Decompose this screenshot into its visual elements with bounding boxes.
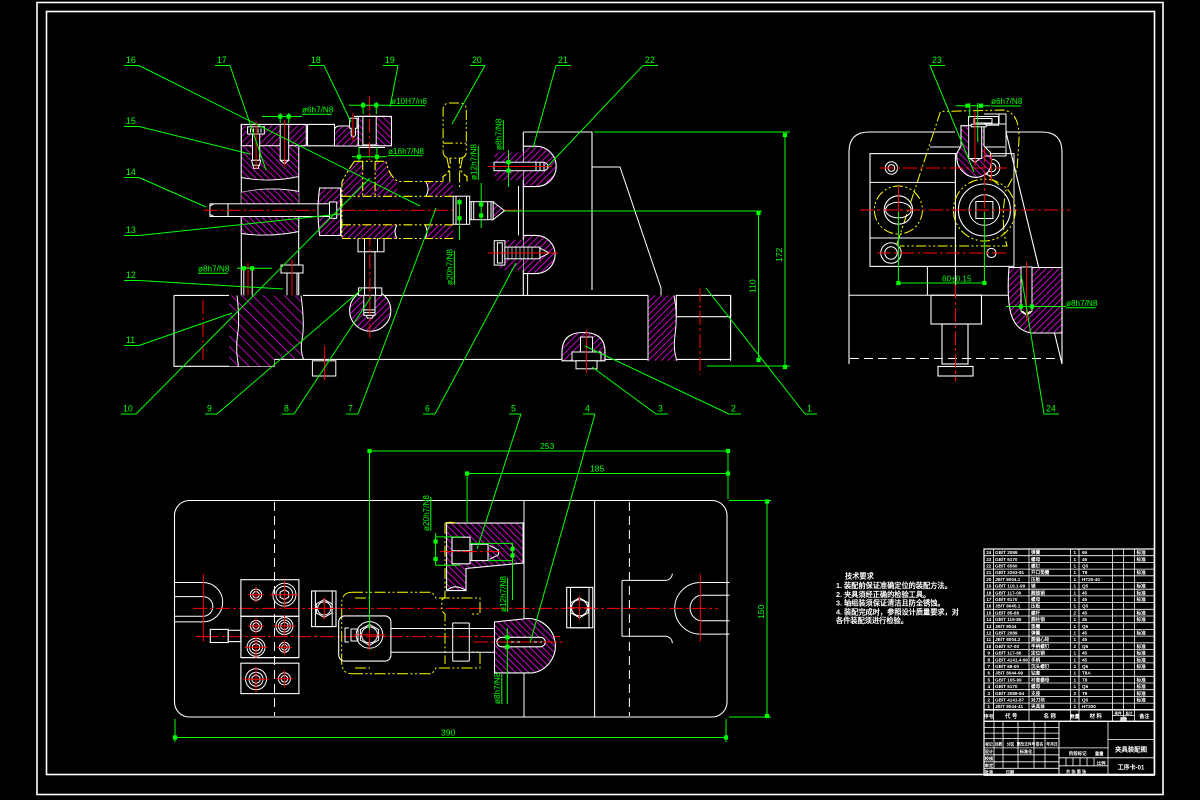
svg-text:3: 3 bbox=[658, 404, 663, 414]
dowel pin bbox=[280, 124, 289, 160]
svg-text:圆偏心轮: 圆偏心轮 bbox=[1031, 636, 1050, 643]
upper boss (hatched) bbox=[523, 146, 556, 186]
clamp screw lower: head bbox=[494, 241, 505, 265]
svg-text:GB/T 117-00: GB/T 117-00 bbox=[995, 590, 1022, 595]
svg-text:1: 1 bbox=[1074, 637, 1077, 642]
svg-text:T8: T8 bbox=[1082, 570, 1088, 575]
svg-text:压板: 压板 bbox=[1031, 603, 1041, 610]
lower boss (hatched) bbox=[523, 235, 555, 273]
plan: guide block with hex bolt bbox=[312, 591, 336, 627]
plan: dashed centerline vertical left bbox=[274, 502, 276, 716]
svg-text:ø12h7/N8: ø12h7/N8 bbox=[470, 144, 479, 180]
svg-text:序号: 序号 bbox=[984, 713, 994, 720]
svg-text:ø8h7/N8: ø8h7/N8 bbox=[1066, 299, 1098, 308]
svg-text:处数: 处数 bbox=[994, 742, 1003, 747]
svg-text:253: 253 bbox=[540, 441, 555, 451]
svg-text:1: 1 bbox=[988, 704, 991, 709]
svg-text:GB/T 2089: GB/T 2089 bbox=[995, 631, 1018, 636]
small hole top-right bbox=[983, 159, 1000, 176]
svg-text:分区: 分区 bbox=[1007, 742, 1015, 747]
svg-text:审定: 审定 bbox=[985, 762, 994, 769]
svg-text:ø20h7/N8: ø20h7/N8 bbox=[422, 495, 431, 531]
dim 172 bbox=[784, 134, 786, 368]
svg-text:45: 45 bbox=[1082, 637, 1088, 642]
svg-text:21: 21 bbox=[986, 570, 992, 575]
dim o8h7/N8 plan vertical bbox=[493, 672, 502, 704]
svg-text:1: 1 bbox=[1074, 704, 1077, 709]
svg-text:5: 5 bbox=[988, 677, 991, 682]
svg-text:支座: 支座 bbox=[1031, 690, 1041, 697]
svg-text:GB/T 4141-87: GB/T 4141-87 bbox=[995, 698, 1025, 703]
svg-text:19: 19 bbox=[385, 55, 395, 65]
pedestal lower block bbox=[942, 324, 968, 364]
svg-text:ø10H7/n6: ø10H7/n6 bbox=[391, 97, 427, 106]
svg-text:Q5: Q5 bbox=[1082, 684, 1089, 689]
svg-text:标准: 标准 bbox=[1136, 643, 1147, 650]
svg-text:10: 10 bbox=[123, 404, 133, 414]
svg-text:ø6h7/N8: ø6h7/N8 bbox=[302, 106, 334, 115]
svg-text:1: 1 bbox=[1074, 550, 1077, 555]
dim o20h7/N8 vertical bbox=[446, 249, 455, 285]
cone tip (hatched) bbox=[493, 202, 504, 220]
body left flange (hatched) bbox=[318, 188, 341, 236]
svg-text:手柄: 手柄 bbox=[1031, 656, 1041, 663]
svg-text:2: 2 bbox=[988, 698, 991, 703]
plan: clamp screw bolt head bbox=[452, 537, 470, 564]
svg-text:批准: 批准 bbox=[985, 768, 994, 775]
bracket base hatched section bbox=[648, 295, 677, 360]
plan: left U-slot bbox=[175, 583, 223, 622]
phantom circle left bbox=[874, 186, 922, 234]
svg-text:JB/T 8045.1: JB/T 8045.1 bbox=[995, 604, 1021, 609]
svg-text:1: 1 bbox=[1074, 684, 1077, 689]
svg-text:16: 16 bbox=[126, 55, 136, 65]
svg-text:1: 1 bbox=[1074, 564, 1077, 569]
svg-text:20: 20 bbox=[986, 577, 992, 582]
svg-text:Q5: Q5 bbox=[1082, 698, 1089, 703]
column hatch band A bbox=[241, 146, 298, 180]
plan: left locating stub bbox=[210, 629, 228, 642]
svg-text:2: 2 bbox=[1074, 644, 1077, 649]
svg-text:45: 45 bbox=[1082, 557, 1088, 562]
pedestal foot bbox=[938, 367, 973, 377]
drill bushing block (hatched) bbox=[358, 116, 391, 145]
locating pin in right section bbox=[350, 118, 357, 137]
svg-text:重量: 重量 bbox=[1120, 716, 1128, 721]
svg-text:GB/T 117-86: GB/T 117-86 bbox=[995, 651, 1022, 656]
dim 150 bbox=[766, 501, 768, 718]
plan: right clamp block with hex bolt bbox=[567, 587, 593, 627]
svg-text:标准: 标准 bbox=[1136, 630, 1147, 637]
svg-text:T8A: T8A bbox=[1082, 671, 1091, 676]
body top boss hatch bbox=[342, 161, 363, 196]
svg-text:7: 7 bbox=[348, 404, 353, 414]
svg-text:标准: 标准 bbox=[1136, 583, 1147, 590]
svg-text:GB/T 68-00: GB/T 68-00 bbox=[995, 664, 1019, 669]
svg-text:HT20-40: HT20-40 bbox=[1082, 577, 1100, 582]
screw centerline bbox=[255, 121, 257, 169]
body hatch band upper bbox=[342, 182, 394, 196]
dim o12h7/N8 plan vertical bbox=[499, 576, 508, 612]
bolt centerline bbox=[369, 232, 371, 338]
svg-text:螺母: 螺母 bbox=[1031, 683, 1041, 690]
svg-text:工序卡-01: 工序卡-01 bbox=[1118, 764, 1145, 772]
svg-text:GB/T 85-88: GB/T 85-88 bbox=[995, 610, 1019, 615]
svg-text:GB/T 6170: GB/T 6170 bbox=[995, 557, 1018, 562]
svg-text:GB/T 6170: GB/T 6170 bbox=[995, 684, 1018, 689]
hole bottom-left bbox=[881, 243, 901, 263]
svg-text:标准: 标准 bbox=[1136, 676, 1147, 683]
svg-text:1: 1 bbox=[1074, 651, 1077, 656]
svg-text:110: 110 bbox=[748, 279, 758, 293]
svg-text:ø8h7/N8: ø8h7/N8 bbox=[198, 265, 230, 274]
plan: arm to right bbox=[391, 628, 494, 630]
clamp stud upper bbox=[494, 162, 544, 171]
small hole bottom-right bbox=[987, 248, 996, 257]
svg-text:GB/T 2263-91: GB/T 2263-91 bbox=[995, 570, 1025, 575]
svg-text:开口垫圈: 开口垫圈 bbox=[1031, 569, 1050, 576]
svg-text:Q5: Q5 bbox=[1082, 604, 1089, 609]
svg-text:GB/T 105-99: GB/T 105-99 bbox=[995, 677, 1022, 682]
svg-text:ø6h7/N8: ø6h7/N8 bbox=[991, 97, 1023, 106]
hex nut on base bbox=[359, 288, 382, 296]
svg-text:GB/T 6560: GB/T 6560 bbox=[995, 564, 1018, 569]
svg-text:标准: 标准 bbox=[1136, 549, 1147, 556]
svg-text:45: 45 bbox=[1082, 631, 1088, 636]
svg-text:弹簧: 弹簧 bbox=[1031, 549, 1041, 556]
svg-text:24: 24 bbox=[1046, 404, 1056, 414]
column hatch band B bbox=[241, 189, 298, 203]
plan: swing bolt circles bbox=[356, 622, 383, 649]
svg-text:1: 1 bbox=[1074, 698, 1077, 703]
svg-text:更改文件号: 更改文件号 bbox=[1017, 742, 1036, 747]
svg-text:总计: 总计 bbox=[1125, 711, 1133, 716]
plan: dashed line right bbox=[628, 502, 630, 716]
svg-text:JB/T 8044: JB/T 8044 bbox=[995, 624, 1017, 629]
plan: section line verticals bbox=[523, 501, 525, 717]
svg-text:ø8h7/N8: ø8h7/N8 bbox=[495, 118, 504, 150]
plan: locating pad (hatched) with slot bbox=[495, 619, 556, 673]
svg-text:14: 14 bbox=[126, 167, 136, 177]
svg-text:各件装配须进行检验。: 各件装配须进行检验。 bbox=[835, 616, 908, 625]
side vertical centerline left circle bbox=[897, 186, 899, 234]
bracket base step block bbox=[676, 295, 730, 316]
svg-text:16: 16 bbox=[986, 604, 992, 609]
svg-text:2. 夹具须经正确的检验工具。: 2. 夹具须经正确的检验工具。 bbox=[836, 590, 930, 599]
svg-text:GB/T 119.1-99: GB/T 119.1-99 bbox=[995, 584, 1026, 589]
svg-text:45: 45 bbox=[1082, 651, 1088, 656]
svg-text:Q5: Q5 bbox=[1082, 664, 1089, 669]
foot bolt bbox=[581, 337, 593, 357]
side centerline row 253 bbox=[877, 252, 1007, 254]
plan: pad slot bbox=[497, 637, 545, 647]
svg-text:45: 45 bbox=[1082, 617, 1088, 622]
svg-text:比例: 比例 bbox=[1097, 759, 1105, 766]
svg-text:圆锥销: 圆锥销 bbox=[1031, 589, 1045, 596]
svg-text:65: 65 bbox=[1082, 550, 1088, 555]
svg-text:185: 185 bbox=[590, 464, 605, 474]
svg-text:压板: 压板 bbox=[1031, 576, 1041, 583]
base plate hatched section bbox=[229, 295, 304, 366]
svg-text:设计: 设计 bbox=[985, 748, 994, 755]
svg-text:标准: 标准 bbox=[1136, 589, 1147, 596]
locating pin lower (ø8) bbox=[244, 268, 252, 318]
svg-text:17: 17 bbox=[986, 597, 992, 602]
svg-text:手柄螺钉: 手柄螺钉 bbox=[1031, 643, 1050, 650]
dim 110 bbox=[758, 212, 760, 361]
plan: left slot centerline bbox=[202, 574, 204, 642]
dim 60+-0.15 bbox=[897, 212, 899, 285]
svg-text:1: 1 bbox=[1074, 631, 1077, 636]
vertical bolt hex head bbox=[358, 238, 384, 252]
column hatch band C bbox=[241, 217, 298, 236]
svg-text:阶段标记: 阶段标记 bbox=[1069, 750, 1087, 757]
dim 390 bbox=[175, 737, 726, 739]
svg-text:名 称: 名 称 bbox=[1044, 712, 1057, 720]
rod passing through flange bbox=[318, 204, 331, 217]
svg-text:标准: 标准 bbox=[1136, 683, 1147, 690]
side vertical centerline right bbox=[983, 148, 985, 281]
svg-text:13: 13 bbox=[126, 225, 136, 235]
svg-text:备注: 备注 bbox=[1138, 713, 1149, 720]
side view ledge line bbox=[849, 294, 1062, 296]
svg-text:代 号: 代 号 bbox=[1004, 712, 1018, 720]
svg-text:ø12h7/N8: ø12h7/N8 bbox=[499, 576, 508, 612]
svg-text:标准: 标准 bbox=[1136, 609, 1147, 616]
svg-text:年月日: 年月日 bbox=[1046, 742, 1058, 747]
svg-text:24: 24 bbox=[986, 550, 992, 555]
svg-text:Q5: Q5 bbox=[1082, 624, 1089, 629]
svg-text:150: 150 bbox=[756, 604, 766, 619]
bushing centerline bbox=[369, 96, 371, 160]
svg-text:1: 1 bbox=[807, 404, 812, 414]
BOM header row bbox=[984, 710, 1154, 722]
plan: left clamp block 3 bbox=[241, 663, 299, 693]
svg-text:1: 1 bbox=[1074, 617, 1077, 622]
svg-text:23: 23 bbox=[986, 557, 992, 562]
svg-text:3. 轴组装须保证清洁且防全锈蚀。: 3. 轴组装须保证清洁且防全锈蚀。 bbox=[836, 599, 945, 608]
svg-text:螺母: 螺母 bbox=[1031, 596, 1041, 603]
side phantom workpiece outline bbox=[897, 110, 1019, 246]
svg-text:1: 1 bbox=[1074, 671, 1077, 676]
svg-text:螺钉: 螺钉 bbox=[1031, 563, 1041, 570]
side view dashed base line bbox=[850, 358, 1061, 360]
svg-text:螺母: 螺母 bbox=[1031, 556, 1041, 563]
side centerline row 168 bbox=[880, 167, 1007, 169]
plan: clamp screw shank bbox=[470, 544, 488, 560]
svg-text:ø8h7/N8: ø8h7/N8 bbox=[493, 672, 502, 704]
svg-text:1. 装配前保证准确定位的装配方法。: 1. 装配前保证准确定位的装配方法。 bbox=[836, 581, 952, 590]
svg-text:390: 390 bbox=[441, 728, 456, 738]
small hole top-left bbox=[885, 162, 897, 174]
bracket left edge segments bbox=[522, 132, 524, 295]
side inner right block bbox=[955, 154, 1014, 267]
slotted screw head bbox=[248, 127, 265, 134]
svg-text:ø16h7/N8: ø16h7/N8 bbox=[388, 147, 424, 156]
svg-text:45: 45 bbox=[1082, 657, 1088, 662]
lug slot bbox=[1021, 267, 1032, 314]
plan: main horizontal centerline bbox=[193, 607, 620, 609]
svg-text:沉头螺钉: 沉头螺钉 bbox=[1031, 663, 1050, 670]
svg-text:Q5: Q5 bbox=[1082, 584, 1089, 589]
svg-text:标准: 标准 bbox=[1136, 556, 1147, 563]
svg-text:11: 11 bbox=[986, 637, 991, 642]
svg-text:定位销: 定位销 bbox=[1031, 650, 1045, 657]
svg-text:标准: 标准 bbox=[1136, 650, 1147, 657]
svg-text:172: 172 bbox=[774, 247, 784, 262]
svg-text:ø20h7/N8: ø20h7/N8 bbox=[446, 249, 455, 285]
base left centerline bbox=[202, 300, 204, 362]
side main horizontal centerline bbox=[860, 209, 1070, 211]
plan: clamp screw block (hatched) bbox=[447, 523, 523, 591]
svg-text:1: 1 bbox=[1074, 597, 1077, 602]
side lug (hatched) bbox=[1008, 268, 1062, 334]
phantom circle right bbox=[953, 179, 1015, 241]
push rod bbox=[210, 204, 333, 217]
washer screw in column bbox=[281, 265, 303, 273]
svg-text:10: 10 bbox=[986, 644, 992, 649]
plan view: base plate outline bbox=[175, 501, 728, 718]
svg-text:圆柱销: 圆柱销 bbox=[1031, 616, 1045, 623]
svg-text:垫圈: 垫圈 bbox=[1031, 623, 1041, 630]
svg-text:1: 1 bbox=[1074, 657, 1077, 662]
svg-text:22: 22 bbox=[986, 564, 992, 569]
svg-text:GB/T 119-86: GB/T 119-86 bbox=[995, 617, 1022, 622]
base foot block bbox=[312, 361, 335, 376]
svg-text:标准: 标准 bbox=[1136, 596, 1147, 603]
body hatch band lower bbox=[342, 225, 397, 239]
svg-text:2: 2 bbox=[1074, 610, 1077, 615]
svg-text:1: 1 bbox=[1074, 584, 1077, 589]
svg-text:4: 4 bbox=[585, 404, 590, 414]
svg-text:GB/T 2089-94: GB/T 2089-94 bbox=[995, 691, 1025, 696]
drill bushing bore bbox=[363, 116, 376, 144]
side view body outline bbox=[849, 132, 1062, 364]
svg-text:22: 22 bbox=[645, 55, 655, 65]
svg-text:GB/T 4141.4-99: GB/T 4141.4-99 bbox=[995, 657, 1028, 662]
plan: phantom line at block bbox=[442, 523, 445, 664]
plan: clamp screw centerline bbox=[440, 551, 504, 553]
vertical bolt shank bbox=[365, 252, 375, 288]
svg-text:12: 12 bbox=[986, 631, 992, 636]
top screw centerline bbox=[974, 112, 976, 166]
top plate mid window bbox=[308, 124, 335, 145]
svg-text:弹簧: 弹簧 bbox=[1031, 630, 1041, 637]
svg-text:8: 8 bbox=[988, 657, 991, 662]
top screw head bbox=[969, 117, 999, 126]
pedestal neck bbox=[927, 266, 955, 295]
svg-text:螺杆: 螺杆 bbox=[1031, 609, 1041, 616]
svg-text:HT200: HT200 bbox=[1082, 704, 1096, 709]
svg-text:GB/T 2089: GB/T 2089 bbox=[995, 550, 1018, 555]
dim 185 bbox=[467, 473, 728, 475]
svg-text:衬套螺母: 衬套螺母 bbox=[1031, 676, 1050, 683]
base bottom edge right part bbox=[274, 358, 730, 360]
svg-text:4: 4 bbox=[988, 684, 991, 689]
upper boss arm hatch bbox=[494, 153, 523, 181]
plan: pad centerline bbox=[474, 641, 564, 643]
svg-text:2: 2 bbox=[1074, 664, 1077, 669]
svg-text:18: 18 bbox=[311, 55, 321, 65]
svg-text:JB/T 8044-99: JB/T 8044-99 bbox=[995, 671, 1024, 676]
svg-text:23: 23 bbox=[932, 55, 942, 65]
dim o12h7/N8 vertical bbox=[470, 144, 479, 180]
dim o20h7/N8 plan vertical bbox=[422, 495, 431, 531]
clamp sleeve (o20) bbox=[453, 196, 470, 224]
svg-text:JB/T 8004.1: JB/T 8004.1 bbox=[995, 577, 1021, 582]
base mid/right top edge bbox=[303, 294, 648, 296]
svg-text:1: 1 bbox=[1074, 570, 1077, 575]
svg-text:15: 15 bbox=[126, 116, 136, 126]
svg-text:13: 13 bbox=[986, 624, 992, 629]
top right step block bbox=[984, 114, 1006, 156]
bracket top edge bbox=[523, 132, 592, 290]
svg-text:销: 销 bbox=[1031, 583, 1036, 590]
svg-text:材 料: 材 料 bbox=[1089, 712, 1103, 720]
plan: second horizontal centerline bbox=[205, 636, 560, 638]
slotted screw shank bbox=[253, 134, 260, 160]
svg-text:JB/T 8004.2: JB/T 8004.2 bbox=[995, 637, 1021, 642]
svg-text:共 张 第 张: 共 张 第 张 bbox=[1066, 768, 1087, 775]
svg-text:11: 11 bbox=[126, 335, 135, 345]
plan: swing bolt body bbox=[339, 616, 391, 661]
svg-text:技术要求: 技术要求 bbox=[845, 572, 875, 581]
lug centerline bbox=[1026, 262, 1028, 321]
svg-text:Q5: Q5 bbox=[1082, 644, 1089, 649]
svg-text:单件: 单件 bbox=[1114, 711, 1122, 716]
svg-text:45: 45 bbox=[1082, 597, 1088, 602]
svg-text:Q5: Q5 bbox=[1082, 564, 1089, 569]
svg-text:9: 9 bbox=[207, 404, 212, 414]
svg-text:对刀块: 对刀块 bbox=[1031, 697, 1045, 704]
svg-text:T8: T8 bbox=[1082, 677, 1088, 682]
svg-text:1: 1 bbox=[1074, 557, 1077, 562]
svg-text:标准化: 标准化 bbox=[1019, 748, 1033, 755]
svg-text:6: 6 bbox=[988, 671, 991, 676]
bracket base centerline bbox=[699, 288, 701, 375]
svg-text:17: 17 bbox=[217, 55, 227, 65]
svg-text:9: 9 bbox=[988, 651, 991, 656]
svg-text:标准: 标准 bbox=[1136, 656, 1147, 663]
svg-text:18: 18 bbox=[986, 590, 992, 595]
big hole right (clamp sleeve) bbox=[958, 184, 1010, 236]
svg-text:12: 12 bbox=[126, 270, 136, 280]
svg-text:夹具体: 夹具体 bbox=[1031, 703, 1045, 710]
top plate right section (hatched) bbox=[334, 126, 358, 146]
top plate left section (hatched) bbox=[241, 124, 306, 145]
pedestal centerline bbox=[955, 285, 957, 381]
svg-text:校核: 校核 bbox=[985, 755, 994, 762]
svg-text:19: 19 bbox=[986, 584, 992, 589]
svg-text:1: 1 bbox=[1074, 677, 1077, 682]
svg-text:7: 7 bbox=[988, 664, 991, 669]
column break wavy line bbox=[241, 189, 298, 193]
svg-text:5: 5 bbox=[511, 404, 516, 414]
side inner block bbox=[870, 154, 955, 267]
svg-text:60±0.15: 60±0.15 bbox=[942, 275, 972, 284]
plan: right U-slot bbox=[675, 583, 730, 635]
dim 253 bbox=[370, 450, 729, 452]
top boss hatched bracket bbox=[957, 126, 992, 178]
sleeve left white edge bbox=[340, 188, 342, 236]
clamp pad circle (hatched) bbox=[350, 290, 391, 331]
svg-text:标准: 标准 bbox=[1136, 569, 1147, 576]
title block bbox=[984, 721, 1154, 775]
svg-text:1: 1 bbox=[1074, 604, 1077, 609]
body phantom outline bbox=[354, 161, 443, 181]
main horizontal centerline bbox=[204, 209, 522, 211]
svg-text:JB/T 8044-41: JB/T 8044-41 bbox=[995, 704, 1024, 709]
